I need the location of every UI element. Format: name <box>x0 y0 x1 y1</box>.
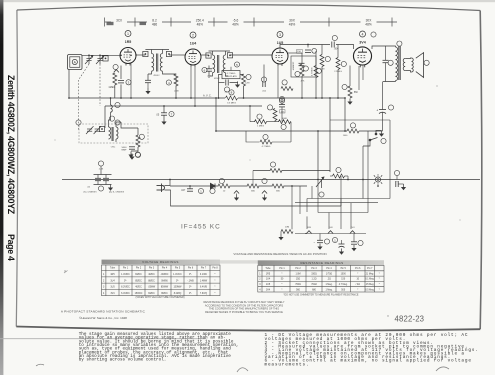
svg-text:*DO NOT USE OHMMETER TO MEASUR: *DO NOT USE OHMMETER TO MEASURE FILAMENT… <box>284 294 359 297</box>
svg-text:4.7 MEG: 4.7 MEG <box>312 67 314 76</box>
tube V1 pin drop wire <box>130 64 132 99</box>
svg-text:1.2Ω: 1.2Ω <box>312 279 317 281</box>
V1 cathode filament bump <box>114 70 119 73</box>
filament supply line <box>170 185 307 187</box>
pilot lamp circle with rays <box>374 174 382 185</box>
speaker loop wires <box>405 57 411 60</box>
svg-text:*: * <box>282 273 283 275</box>
coupling capacitor .004 <box>332 42 334 48</box>
svg-text:A PHOTOFACT STANDARD NOTATION: A PHOTOFACT STANDARD NOTATION SCHEMATIC <box>61 310 146 314</box>
svg-text:150MW: 150MW <box>174 287 183 289</box>
wire coupling cap to V4 grid <box>336 45 354 50</box>
svg-text:OSC: OSC <box>111 147 116 149</box>
IFT2 secondary coil <box>223 55 225 73</box>
svg-text:48%: 48% <box>365 23 372 27</box>
nest vertical wire e <box>340 176 342 229</box>
volume feed cap <box>279 105 285 107</box>
svg-text:455KC: 455KC <box>153 75 160 77</box>
svg-text:Pin 1: Pin 1 <box>279 268 285 270</box>
svg-text:3.3 MEG: 3.3 MEG <box>227 102 236 104</box>
tube V3 1U5 detector <box>272 48 288 66</box>
nest vertical wire a <box>306 199 308 230</box>
svg-text:1R5: 1R5 <box>125 40 132 44</box>
svg-text:3.1/DC: 3.1/DC <box>200 274 207 276</box>
detector cap C14 <box>263 81 265 87</box>
osc grid resistor <box>136 135 140 147</box>
volume cap label box <box>280 110 285 113</box>
resistance table grid <box>258 265 384 292</box>
osc ground ref <box>135 152 140 157</box>
filament symbol 3V4 row2 <box>350 231 355 234</box>
svg-text:RESISTANCE READINGS: RESISTANCE READINGS <box>300 261 343 265</box>
wire V1 pins down <box>120 66 122 80</box>
filament symbol 1R5 row2 <box>306 231 311 234</box>
filament symbol 1U4 row2 <box>328 231 333 234</box>
svg-text:88/DC: 88/DC <box>148 280 155 282</box>
svg-text:Pin 7: Pin 7 <box>367 268 373 270</box>
svg-text:15Ω: 15Ω <box>296 279 301 281</box>
svg-text:.05MW: .05MW <box>148 287 156 289</box>
ruler ticks <box>104 18 106 27</box>
grid bias resistor 4.7MEG <box>260 140 272 144</box>
svg-text:.15 Meg.: .15 Meg. <box>365 284 374 286</box>
couplate top wire <box>230 67 232 71</box>
loop antenna inner box <box>70 57 80 68</box>
row2 ref circle mid <box>332 237 337 242</box>
osc padder trimmer 1 <box>86 126 94 134</box>
svg-text:86/DC: 86/DC <box>161 293 168 295</box>
volume feed cap ref <box>279 98 284 103</box>
grid return ground left <box>278 234 283 240</box>
svg-text:6.4V/DC: 6.4V/DC <box>121 293 130 295</box>
AVC feed resistor vertical <box>242 74 246 86</box>
couplate ref circle <box>234 62 239 67</box>
IFT1 secondary coil <box>160 54 162 72</box>
surge resistor ref <box>219 178 224 183</box>
IFT2 top leads <box>201 54 209 56</box>
volume control resistor <box>300 64 304 76</box>
svg-text:3C0: 3C0 <box>116 19 122 23</box>
svg-text:by shorting across volume cont: by shorting across volume control. <box>79 358 167 363</box>
svg-text:486: 486 <box>152 23 158 27</box>
ruler gain labels <box>107 19 377 27</box>
detector load resistor horizontal <box>281 87 293 91</box>
OT ref circle <box>397 41 402 46</box>
svg-text:85/MW: 85/MW <box>161 287 169 289</box>
line filter cap 1 <box>95 178 101 180</box>
gang dashed link diagonal <box>79 64 90 80</box>
volume resistor 500K ref <box>281 124 286 129</box>
tube V2 pin drop wires <box>190 67 192 98</box>
svg-text:.047: .047 <box>181 190 186 192</box>
svg-text:*: * <box>357 273 358 275</box>
svg-text:500K: 500K <box>282 118 288 120</box>
speaker ref circle <box>424 60 429 65</box>
volume resistor 1 MEG <box>255 120 267 124</box>
coupling cap ref <box>332 35 337 40</box>
tuning capacitor C1B <box>96 55 104 64</box>
svg-text:0M/66: 0M/66 <box>161 280 168 282</box>
tube V4 3V4 output <box>353 47 371 67</box>
filament A bump <box>234 191 239 194</box>
svg-text:Pin 1: Pin 1 <box>123 268 129 270</box>
osc wires <box>137 128 139 135</box>
tube V4 callout circle <box>360 31 366 37</box>
faint rule bottom left <box>0 338 206 340</box>
svg-text:48%: 48% <box>289 23 296 27</box>
grid return resistor 2 <box>304 212 316 216</box>
svg-text:*: * <box>215 287 216 289</box>
B+ bypass cap ref <box>169 111 174 116</box>
filter resistor horizontal <box>347 129 359 133</box>
line filter ground <box>108 185 113 191</box>
svg-text:1 Meg.: 1 Meg. <box>325 284 332 286</box>
svg-text:21 Meg.: 21 Meg. <box>366 273 375 275</box>
svg-text:4.7 MEG: 4.7 MEG <box>227 73 236 75</box>
svg-text:0*-: 0*- <box>189 274 192 276</box>
svg-text:*: * <box>379 284 380 286</box>
IFT1 grid cap ground <box>145 88 150 94</box>
electrolytic ref <box>388 105 393 110</box>
surge resistor <box>218 184 230 188</box>
svg-text:3.9M: 3.9M <box>320 69 325 71</box>
osc coil primary winding <box>109 127 111 139</box>
svg-text:1/70Ω: 1/70Ω <box>326 273 332 275</box>
nest vertical from plug line <box>340 199 342 207</box>
IFT2 core lines <box>217 55 219 73</box>
svg-text:Pin 2: Pin 2 <box>295 268 301 270</box>
osc padder capacitor <box>129 147 135 149</box>
tube V1 1R5 converter <box>120 48 136 66</box>
faint band connecting table headers <box>102 260 385 263</box>
couplate ground <box>235 82 240 88</box>
svg-text:measurements.: measurements. <box>265 362 310 367</box>
osc coil wires <box>110 98 112 105</box>
B+ line second bus <box>105 105 262 107</box>
line filter ref bottom <box>98 186 103 191</box>
svg-text:1U4: 1U4 <box>110 280 115 282</box>
svg-text:0*-: 0*- <box>176 280 179 282</box>
svg-text:Pin 8: Pin 8 <box>212 268 218 270</box>
svg-text:A.V.C.: A.V.C. <box>203 94 212 98</box>
svg-text:8.2M/Q: 8.2M/Q <box>174 293 182 295</box>
electrolytic wires <box>382 82 384 104</box>
svg-text:1R5: 1R5 <box>266 273 271 275</box>
svg-text:330Ω: 330Ω <box>311 273 317 275</box>
volume resistor ref <box>257 114 262 119</box>
svg-text:3V4: 3V4 <box>359 41 365 45</box>
ref circle filament B <box>262 178 267 183</box>
svg-text:Page 4: Page 4 <box>6 234 16 261</box>
svg-text:THE COOPERATION OF THE MANUFAC: THE COOPERATION OF THE MANUFACTURERS OF … <box>209 307 279 311</box>
volume control ref <box>319 192 324 197</box>
IFT1 primary coil <box>152 54 154 72</box>
OT core <box>398 46 400 80</box>
filament B bump <box>262 191 267 194</box>
screen bus line <box>216 130 347 132</box>
IFT1 return resistor vertical <box>174 74 178 86</box>
V1 bypass cap ref <box>126 80 131 85</box>
svg-text:47K: 47K <box>301 81 305 83</box>
svg-text:7.6V/Q: 7.6V/Q <box>200 293 207 295</box>
svg-text:Pin 5: Pin 5 <box>175 268 181 270</box>
nest horizontal wire 1 <box>307 198 390 200</box>
svg-text:Pin 4: Pin 4 <box>326 268 332 270</box>
svg-text:0*-: 0*- <box>189 287 192 289</box>
svg-text:84/DC: 84/DC <box>135 274 142 276</box>
V1 bypass capacitor <box>118 81 124 83</box>
AVC series resistor ref <box>229 90 234 95</box>
B+ bypass cap ground <box>161 119 166 125</box>
IFT1 bottom leads <box>148 71 152 74</box>
line filter rails <box>94 174 112 176</box>
svg-text:100MMF: 100MMF <box>291 62 293 71</box>
voice coil <box>412 58 414 72</box>
wire antenna box down to AVC bus <box>68 70 70 99</box>
svg-text:4822-23: 4822-23 <box>395 314 425 323</box>
bias resistor 1400 <box>333 174 345 179</box>
line filter cap 2 <box>103 178 109 180</box>
line filter vertical feed <box>100 166 102 174</box>
volume control wiper arrow <box>316 177 324 188</box>
junction dots <box>68 54 379 187</box>
AVC series resistor <box>225 96 238 101</box>
svg-text:Tube: Tube <box>265 268 271 270</box>
V3 plate resistor <box>320 55 324 67</box>
grid bias loop wire <box>246 131 260 142</box>
svg-text:8.2V/DC: 8.2V/DC <box>121 287 130 289</box>
tube V4 pin drop wires <box>358 66 360 90</box>
AVC feed resistor ref <box>246 74 251 79</box>
page border bottom <box>16 327 480 331</box>
V2 grid cap ref <box>202 67 207 72</box>
IFT1 grid cap <box>145 80 151 82</box>
heater tap resistor <box>270 168 282 172</box>
IFT1 return wires <box>168 73 176 76</box>
couplate bottom cap ref <box>224 87 229 92</box>
resistance table text <box>259 268 379 291</box>
svg-text:0*-: 0*- <box>124 280 127 282</box>
pilot shunt cap <box>396 181 398 187</box>
svg-text:85/DC: 85/DC <box>135 280 142 282</box>
svg-text:1U5: 1U5 <box>110 287 115 289</box>
svg-text:0*-: 0*- <box>189 293 192 295</box>
svg-text:70Ω2: 70Ω2 <box>311 284 317 286</box>
bias resistor ground <box>347 99 352 105</box>
gang dashed link to osc trimmer <box>99 64 101 106</box>
left paragraph <box>79 332 239 363</box>
switch ground <box>379 131 384 137</box>
OT secondary coil <box>403 59 405 71</box>
cathode bias resistor 560 <box>348 86 352 98</box>
IFT2 secondary trimmer <box>227 53 232 58</box>
V1 cathode ref circle <box>113 64 118 69</box>
power plug <box>157 184 165 193</box>
IFT1 core lines <box>156 54 158 72</box>
svg-text:VOLTAGE AND RESISTANCE READING: VOLTAGE AND RESISTANCE READINGS TAKEN IN… <box>233 252 326 256</box>
V1 grid resistor <box>113 73 117 85</box>
svg-text:4: 4 <box>362 32 364 36</box>
antenna trimmer box <box>103 56 108 61</box>
bus vertical left <box>104 106 106 128</box>
nest vertical wire h <box>389 120 391 199</box>
V2 grid capacitor <box>206 69 212 71</box>
vertical feeders to lower network <box>291 186 293 232</box>
osc refs on coil <box>115 102 120 107</box>
volume series resistor v <box>273 109 277 121</box>
svg-text:*: * <box>379 289 380 291</box>
svg-text:/ 4Ω: / 4Ω <box>356 284 361 286</box>
osc feedback winding <box>111 105 113 112</box>
row2 cap ground <box>317 244 322 250</box>
dropping resistor 680 b <box>272 184 284 188</box>
switch ref <box>381 138 386 143</box>
IF bypass cap top <box>305 50 311 52</box>
speaker cone <box>416 53 424 78</box>
osc coil secondary winding <box>116 127 118 139</box>
wire V3 plate up <box>280 45 330 48</box>
svg-text:ACCORDING TO THE CONDITION OF: ACCORDING TO THE CONDITION OF THE FILTER… <box>205 303 283 307</box>
cord bottom wire <box>165 190 342 206</box>
row2 bypass cap ref <box>324 239 329 244</box>
svg-text:Pin 6: Pin 6 <box>355 268 361 270</box>
svg-text:(B+) CHASSIS: (B+) CHASSIS <box>83 191 97 194</box>
svg-text:*: * <box>215 274 216 276</box>
detector ref below <box>279 96 284 101</box>
small value labels <box>111 69 348 149</box>
svg-text:*: * <box>282 289 283 291</box>
svg-text:2.2M: 2.2M <box>245 83 250 85</box>
svg-text:Pin 5: Pin 5 <box>341 268 347 270</box>
svg-text:*: * <box>379 279 380 281</box>
row2 electrolytic B ground <box>339 249 344 255</box>
svg-text:40/DC: 40/DC <box>148 274 155 276</box>
gang line ref circle <box>76 120 81 125</box>
filter electrolytic capacitor A <box>379 103 386 119</box>
IFT2 bottom leads <box>210 73 213 76</box>
svg-text:(A-) B- CHASSIS: (A-) B- CHASSIS <box>109 191 125 194</box>
IFT2 primary trimmer <box>206 53 211 58</box>
voltage table header bar <box>102 260 221 265</box>
svg-text:RESISTANCE READINGS IN THE B-/: RESISTANCE READINGS IN THE B-/ CIRCUITS … <box>204 300 285 304</box>
pen scribble left <box>36 364 44 366</box>
line filter ref top <box>98 161 103 166</box>
row2 connecting line <box>295 233 366 235</box>
IFT1 secondary trimmer <box>166 51 171 56</box>
top scan edge band <box>0 0 495 2</box>
IFT2 top rail <box>209 50 231 52</box>
svg-text:6.4V/B: 6.4V/B <box>200 287 207 289</box>
grid return resistor 1 <box>281 229 293 233</box>
junction dot antenna line <box>88 55 90 57</box>
IFT1 top leads <box>136 54 145 56</box>
svg-text:-.1%B: -.1%B <box>187 280 194 282</box>
svg-text:1 Meg.: 1 Meg. <box>325 289 332 291</box>
nest vertical wire d <box>328 213 330 230</box>
svg-text:1.4V/DC: 1.4V/DC <box>121 274 130 276</box>
svg-text:.004: .004 <box>334 47 339 50</box>
AF coupling resistor <box>314 66 318 78</box>
row2 electrolytic B <box>339 240 345 247</box>
row2 cap C ref <box>358 240 363 245</box>
svg-text:40/DC: 40/DC <box>135 287 142 289</box>
svg-text:*: * <box>215 293 216 295</box>
heater tap ref <box>270 162 275 167</box>
pen scribble middle <box>237 368 248 372</box>
diode ref <box>210 188 215 193</box>
svg-text:1 MEG: 1 MEG <box>257 126 264 128</box>
svg-text:150/DC: 150/DC <box>135 293 143 295</box>
svg-text:22MEG: 22MEG <box>175 76 177 84</box>
svg-text:1: 1 <box>127 32 129 36</box>
svg-text:.2Ω: .2Ω <box>327 279 331 281</box>
svg-text:4.7 Meg.: 4.7 Meg. <box>339 284 348 286</box>
couplate bottom cap <box>226 80 228 86</box>
switch wires <box>363 140 370 146</box>
grid bias resistor ref <box>263 134 268 139</box>
loop antenna outer box <box>68 55 83 70</box>
svg-text:(TAKEN WITH VACUUM TUBE VOLTME: (TAKEN WITH VACUUM TUBE VOLTMETER) <box>135 296 184 299</box>
svg-text:1U4: 1U4 <box>266 279 271 281</box>
svg-text:220K: 220K <box>174 91 179 93</box>
svg-text:COUPLATE: COUPLATE <box>225 75 237 78</box>
line cap ref <box>198 188 203 193</box>
svg-text:3V4: 3V4 <box>266 289 271 291</box>
couplate wires <box>219 75 223 99</box>
right numbered list <box>265 333 479 367</box>
voltage table grid <box>102 265 221 296</box>
tube V2 1U4 IF amplifier <box>185 49 201 67</box>
nest horizontal wire 2 <box>295 202 378 204</box>
svg-text:48%: 48% <box>197 23 204 27</box>
tube V1 callout circle <box>125 31 131 37</box>
svg-text:0.1 Meg.: 0.1 Meg. <box>365 279 374 281</box>
detector 150 label box <box>297 50 303 54</box>
svg-text:MMF: MMF <box>122 149 128 151</box>
svg-text:Pin 3: Pin 3 <box>149 268 155 270</box>
svg-text:1U4: 1U4 <box>190 42 197 46</box>
svg-text:*: * <box>357 289 358 291</box>
cord top wire <box>165 180 171 186</box>
row2 cap C <box>351 242 357 244</box>
svg-text:10M: 10M <box>285 227 289 229</box>
svg-text:700Ω: 700Ω <box>295 284 301 286</box>
rectifier diode <box>211 184 216 189</box>
V3 grid leak resistor <box>336 58 340 70</box>
svg-text:Pin 2: Pin 2 <box>136 268 142 270</box>
resistance table header bar <box>258 260 384 265</box>
ground arrow above filter <box>129 154 134 160</box>
B- bus line <box>62 179 480 181</box>
tube V3 pin drop wire <box>277 66 279 98</box>
line cap .047 <box>187 189 193 191</box>
osc trimmer box <box>99 126 104 131</box>
svg-text:48%: 48% <box>232 23 239 27</box>
osc padder trimmer 2 <box>94 126 102 134</box>
svg-text:2.2MEG: 2.2MEG <box>334 71 342 73</box>
bias resistor ref <box>336 167 341 172</box>
svg-text:Zenith 4G800Z, 4G800WZ, 4G800Y: Zenith 4G800Z, 4G800WZ, 4G800YZ <box>6 75 16 215</box>
detector wires <box>288 52 302 54</box>
scan specks <box>54 85 460 316</box>
antenna terminal circle A <box>72 59 77 64</box>
pilot shunt cap ground <box>401 184 406 190</box>
svg-text:*: * <box>215 280 216 282</box>
svg-text:1.4MW: 1.4MW <box>200 280 208 282</box>
svg-text:Tube: Tube <box>110 268 116 270</box>
plate bypass cap <box>383 60 389 62</box>
svg-text:+: + <box>376 109 378 113</box>
